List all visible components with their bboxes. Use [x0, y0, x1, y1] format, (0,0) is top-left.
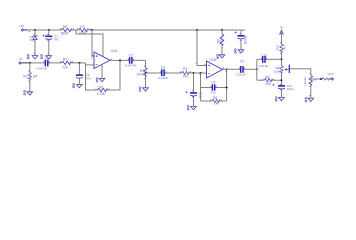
capacitor C11 polarized below pot [272, 84, 293, 98]
svg-text:C2: C2 [129, 54, 133, 58]
wire mid row [146, 72, 207, 74]
wire bias to U1 +input [92, 30, 94, 56]
node 9V power arrow [280, 26, 284, 34]
op-amp U1B [207, 58, 223, 78]
ground (R9) [217, 54, 225, 59]
resistor R10 from 9V [276, 34, 287, 59]
svg-text:100R: 100R [79, 31, 87, 35]
node pot bottom junction [281, 79, 283, 81]
ground (R4) [139, 87, 148, 92]
svg-text:C1: C1 [45, 56, 49, 60]
resistor R7 [79, 25, 89, 35]
svg-text:IN: IN [19, 57, 22, 61]
resistor R12 output pulldown [303, 75, 317, 86]
node +9V supply port [19, 24, 29, 31]
ground (C3) [73, 83, 83, 88]
capacitor C7 polarized [43, 35, 60, 42]
wire upper branch [257, 58, 282, 60]
wire U1 feedback loop [86, 60, 121, 90]
node R4 junction [145, 72, 147, 74]
resistor R2 series [62, 58, 72, 70]
wire wiper to output corner [290, 69, 322, 98]
capacitor C6 feedback [211, 81, 216, 95]
svg-text:560R: 560R [61, 32, 69, 36]
svg-text:C6: C6 [211, 81, 215, 85]
node IN port [19, 57, 29, 64]
capacitor C8 polarized bias filter [235, 30, 248, 50]
capacitor C9 [236, 60, 246, 77]
capacitor C4 [158, 66, 168, 80]
wire split vertical [256, 59, 258, 80]
svg-text:0.047uF: 0.047uF [125, 63, 136, 67]
svg-text:100K: 100K [136, 73, 144, 77]
svg-text:LEVEL: LEVEL [303, 76, 307, 86]
svg-text:100u: 100u [287, 87, 294, 91]
svg-text:4.75K: 4.75K [97, 92, 106, 96]
node output split junction [256, 68, 258, 70]
resistor R8 feedback [212, 96, 220, 106]
wire zener branch [34, 30, 36, 56]
svg-text:R6: R6 [265, 75, 269, 79]
svg-text:4K7: 4K7 [282, 44, 286, 50]
svg-text:1M: 1M [214, 102, 219, 106]
node input junction dots [29, 62, 81, 64]
svg-text:22K: 22K [183, 75, 190, 79]
svg-text:0.01uF: 0.01uF [236, 73, 246, 77]
capacitor C2 [125, 54, 136, 68]
node out branch junction [320, 78, 322, 80]
svg-text:100uF: 100uF [244, 35, 248, 44]
resistor R5 feedback [97, 85, 108, 96]
ground (C11) [275, 97, 284, 102]
svg-text:R2: R2 [63, 58, 67, 62]
node U1 output junction [119, 59, 121, 61]
resistor R6 [57, 25, 72, 36]
ground (R12) [305, 98, 314, 103]
resistor R1 input pulldown [23, 63, 37, 92]
svg-text:R1: R1 [23, 74, 27, 78]
ground (R1) [24, 91, 33, 96]
wire U1 V- pin [101, 65, 103, 79]
op-amp U1A [94, 49, 118, 68]
ground (C8) [235, 49, 244, 54]
wire bias to U2 +input [197, 30, 207, 66]
ground (C5) [187, 106, 196, 111]
svg-text:0.047uF: 0.047uF [36, 67, 47, 71]
node U2 fb junction dots [226, 68, 228, 88]
resistor R11 series out [322, 78, 330, 80]
svg-text:+9V: +9V [19, 24, 24, 28]
svg-text:C4: C4 [161, 66, 165, 70]
capacitor C3 shunt polarized [76, 63, 91, 85]
svg-text:R6: R6 [63, 25, 67, 29]
wire lower branch [257, 75, 282, 80]
svg-text:C10: C10 [261, 53, 267, 57]
node OUT port [328, 72, 334, 80]
node rail junction dots [34, 29, 223, 31]
ground (zener) [27, 54, 37, 59]
capacitor C10 upper branch [259, 53, 269, 68]
svg-text:R8: R8 [213, 96, 217, 100]
svg-text:47u: 47u [54, 38, 59, 42]
wire U2 output [223, 68, 257, 70]
svg-text:22K: 22K [62, 66, 69, 70]
resistor R4 shunt [136, 67, 147, 76]
svg-text:R5: R5 [99, 85, 103, 89]
node pot top junction [281, 58, 283, 60]
node mid junction dots [193, 72, 202, 74]
svg-text:R10: R10 [276, 44, 280, 50]
svg-text:10K: 10K [219, 39, 223, 44]
svg-text:R7: R7 [80, 25, 84, 29]
capacitor C1 input coupling [36, 56, 49, 70]
svg-text:47p: 47p [211, 90, 216, 94]
wire C2 to R4 node [145, 60, 147, 87]
svg-text:33K: 33K [265, 82, 272, 86]
svg-text:R3: R3 [183, 67, 187, 71]
wire input row [28, 63, 95, 65]
ground (C7) [41, 54, 52, 59]
svg-text:100K: 100K [274, 70, 281, 74]
resistor R6b lower branch [264, 75, 272, 86]
pin ticks [28, 28, 330, 101]
wire U1 output [110, 59, 146, 61]
capacitor C5 polarized to ground [185, 73, 202, 106]
svg-text:U1A: U1A [111, 49, 118, 53]
svg-text:C9: C9 [240, 60, 244, 64]
wire C7 branch [48, 30, 50, 56]
svg-text:OUT: OUT [328, 72, 334, 76]
svg-text:U1B: U1B [209, 58, 216, 62]
diode D1 zener [30, 35, 38, 42]
ground (U1) [96, 78, 105, 83]
resistor R9 bias pulldown [216, 30, 224, 55]
resistor R3 series [182, 67, 190, 79]
svg-text:47u: 47u [86, 76, 91, 80]
svg-text:0.01uF: 0.01uF [259, 64, 269, 68]
svg-text:0.22uF: 0.22uF [158, 76, 168, 80]
wire V+ tap to U1 [76, 30, 103, 56]
potentiometer VR1 [274, 59, 289, 85]
wire top supply rail [28, 29, 246, 31]
svg-text:1M: 1M [33, 74, 38, 78]
wire U2 feedback left/right [201, 69, 227, 101]
svg-text:9V: 9V [280, 26, 284, 30]
